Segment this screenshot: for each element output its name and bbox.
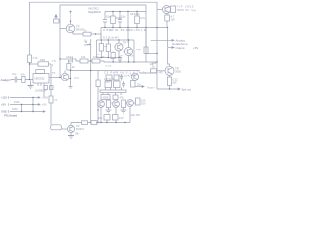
junction node (116,122.5): [115, 122, 116, 123]
title label: [88, 7, 101, 14]
wire long mid rail: [100, 61, 157, 62]
svg-text:+12V: +12V: [42, 96, 48, 100]
resistor R_reg: [165, 15, 170, 21]
resistor box R_a: [112, 12, 114, 28]
junction node (157,62): [156, 61, 157, 62]
junction node (108.3,40): [108, 39, 109, 40]
wire Q4 to right edge: [140, 72, 157, 74]
svg-text:+12V: +12V: [1, 96, 7, 100]
wire arrow to block: [96, 122, 97, 124]
wire Q3 collector: [118, 40, 120, 43]
label Q6: [75, 124, 85, 136]
svg-text:+5V: +5V: [42, 103, 47, 107]
junction node (101,122.5): [100, 122, 101, 123]
junction node (33,104.5): [32, 104, 33, 105]
svg-text:1W: 1W: [171, 18, 176, 22]
dashed adj line: [70, 13, 72, 22]
junction node (113.1,62): [112, 61, 113, 62]
wire cap drop 2: [119, 12, 121, 28]
wire Q5 down: [166, 14, 168, 16]
wire base: [60, 28, 67, 30]
svg-text:100n: 100n: [136, 49, 142, 51]
box small row 2: [113, 115, 119, 121]
wire Q3 base: [114, 46, 117, 48]
junction node (70.5,70.5): [70, 70, 71, 71]
box small row 1: [104, 115, 110, 121]
svg-text:R5: R5: [85, 43, 89, 47]
wire Q2 collector right: [69, 78, 71, 80]
wire Q2 top: [64, 71, 66, 74]
component row top: box1: [105, 81, 112, 88]
capacitor C11: [118, 56, 122, 62]
wire row3: [10, 111, 45, 113]
label Q5: [171, 5, 196, 22]
arrow collector: [98, 122, 100, 124]
transistor Q7: [165, 66, 174, 75]
wire collector up: [70, 21, 72, 24]
resistor box C: [111, 53, 115, 59]
junction node (120,62): [119, 61, 120, 62]
resistor right lowblock: [136, 98, 141, 105]
box bottom connector J2: [51, 125, 62, 130]
capacitor block C20: [44, 86, 48, 90]
wire rows joint vertical: [32, 98, 34, 112]
junction node (68.8,61): [68, 60, 69, 61]
svg-text:4R7: 4R7: [159, 72, 164, 75]
wire collector up: [71, 123, 82, 126]
wires down to rail: [101, 106, 130, 122]
junction node (137,11.5): [136, 11, 137, 12]
resistor base Rb: [151, 69, 157, 73]
wire opamp down to power rows: [43, 86, 45, 98]
wire fb right: [49, 63, 52, 65]
svg-text:TR: TR: [123, 41, 127, 45]
transistor Q4: [131, 73, 138, 80]
wire Q4b base: [124, 51, 125, 53]
wire R5-R6: [88, 60, 92, 62]
svg-text:10u: 10u: [12, 72, 17, 76]
wire opamp out down: [50, 64, 52, 125]
junction node (128.5,62): [128, 61, 129, 62]
wire volume pot vertical: [90, 39, 92, 71]
junction node (95.5,34): [95, 33, 96, 34]
junction node (119,40): [118, 39, 119, 40]
wire: [88, 122, 92, 124]
svg-text:TP: TP: [52, 71, 56, 75]
ground small: [69, 87, 73, 89]
junction node (169.5,89): [169, 88, 170, 89]
svg-text:10k: 10k: [75, 132, 80, 136]
svg-text:LM386 N: LM386 N: [35, 89, 46, 93]
transistor Q6: [67, 125, 74, 132]
junction node (90.7,61): [90, 60, 91, 61]
arrow row2: [38, 104, 40, 106]
wire stubs lowblock: [108, 100, 123, 111]
transistor Q3: [115, 43, 123, 51]
junction node (105,27.5): [104, 27, 105, 28]
wire resistor to rail: [166, 21, 168, 28]
wire top rail: [105, 11, 146, 13]
svg-text:47k: 47k: [21, 73, 26, 77]
wire Q3 emitter: [118, 51, 120, 58]
bus pins down: [103, 93, 121, 96]
junction node (157,27.5): [156, 27, 157, 28]
pot wiper arrow: [87, 44, 90, 45]
resistor Rb1: [82, 121, 88, 125]
svg-text:L IN R IN: L IN R IN: [104, 78, 114, 81]
svg-text:10u 16V: 10u 16V: [131, 113, 141, 117]
resistor box C_c: [136, 12, 138, 28]
junction node (33,111.5): [32, 111, 33, 112]
wire rail to lowblock: [97, 71, 99, 91]
transistor Q2 lower-left: [61, 73, 69, 81]
labels amp block: [84, 36, 154, 67]
wire feedback down: [90, 71, 92, 123]
labels output: [152, 61, 181, 90]
resistor R1: [22, 77, 25, 83]
labels lower block: [98, 80, 153, 121]
op-amp U1 box: [33, 74, 49, 84]
resistor ladder r2: [107, 40, 109, 58]
tick row3: [7, 110, 9, 112]
svg-text:BC547: BC547: [76, 127, 84, 131]
arrow output: [168, 47, 175, 49]
svg-text:100n: 100n: [14, 100, 20, 104]
wire drop x70.5: [70, 71, 72, 87]
wire cap drop 1: [104, 12, 106, 28]
svg-text:4.7k: 4.7k: [33, 56, 39, 60]
wire out rail: [157, 88, 176, 90]
junction node (128,11.5): [127, 11, 128, 12]
svg-text:Spk out: Spk out: [182, 88, 192, 92]
wire bottom rail: [96, 122, 130, 124]
svg-text:C PWR IN -5V GND +5V L R: C PWR IN -5V GND +5V L R: [103, 28, 146, 32]
junction node (125,122.5): [124, 122, 125, 123]
wire R7 stub: [68, 61, 70, 64]
transistor Q9: [113, 101, 120, 108]
resistor R7 vertical: [67, 64, 71, 71]
arrow out: [178, 88, 180, 90]
ground lowblock 2: [120, 110, 126, 113]
junction node (134,62): [133, 61, 134, 62]
wire block bottom rail: [97, 57, 123, 59]
junction node (137,27.5): [136, 27, 137, 28]
labels headphone: [172, 39, 198, 50]
resistor Rb2: [91, 121, 97, 125]
junction node (157,53.5): [156, 53, 157, 54]
label Q1: [76, 25, 87, 33]
svg-text:10u: 10u: [106, 15, 111, 19]
svg-text:A out: A out: [147, 86, 153, 90]
ground lowblock 1: [105, 110, 111, 113]
wire emitter down: [70, 133, 72, 136]
svg-text:4.7u: 4.7u: [140, 16, 146, 20]
svg-text:3055: 3055: [175, 70, 181, 74]
svg-text:100k: 100k: [40, 58, 46, 62]
junction node (90.7,122.5): [90, 122, 91, 123]
wire block right edge: [133, 40, 135, 62]
cap plus: [122, 81, 125, 88]
wire to amp block: [91, 33, 101, 35]
labels input stage: [12, 56, 46, 90]
box U2b: [113, 95, 118, 100]
svg-text:+5V: +5V: [193, 46, 198, 50]
box low2: [114, 75, 119, 80]
wire out arrow: [135, 86, 144, 88]
svg-text:10u: 10u: [137, 83, 142, 87]
junction node (70.5,21): [70, 20, 71, 21]
wire x128 down to amp block: [127, 28, 129, 44]
svg-text:+5V: +5V: [1, 103, 6, 107]
wire box to base: [62, 128, 68, 130]
wire block top rail: [97, 39, 135, 41]
box low1: [106, 75, 112, 81]
resistor R2 vertical on left edge: [28, 55, 32, 63]
junction node (70.5,78.5): [70, 78, 71, 79]
wire left edge lower: [29, 63, 31, 80]
svg-text:7.5: 7.5: [52, 59, 56, 63]
wire Q4b collector up: [128, 40, 130, 48]
resistor R out 0.22: [167, 77, 171, 86]
transistor Q10: [127, 100, 134, 107]
svg-text:10u: 10u: [98, 116, 103, 120]
wire to out rail: [169, 86, 171, 90]
wire Q4b emitter down: [128, 56, 130, 63]
wire row1: [10, 97, 40, 99]
wire block left edge: [97, 90, 99, 123]
resistor vert lowblock 2: [121, 100, 125, 108]
junction node (107,122.5): [106, 122, 107, 123]
wire row2: [10, 104, 40, 106]
junction node (120,11.5): [119, 11, 120, 12]
wire base feed: [157, 9, 163, 11]
transistor Q4b: [125, 48, 133, 56]
svg-text:7805 5V reg: 7805 5V reg: [177, 8, 196, 12]
svg-text:47k: 47k: [120, 96, 125, 100]
junction node (108.3,57.5): [108, 57, 109, 58]
wire right edge down: [156, 62, 158, 89]
wire base: [157, 70, 165, 72]
junction node (167.5,27.5): [167, 27, 168, 28]
resistor R12: [96, 80, 100, 87]
wire inner left edge down: [59, 28, 61, 77]
wire Q7 emitter down: [169, 75, 171, 77]
wire J1 to base: [59, 20, 60, 22]
svg-text:100n: 100n: [12, 107, 18, 111]
junction node (29.5,64): [29, 63, 30, 64]
junction node (128.5,40): [128, 39, 129, 40]
svg-text:1k 0.1u 4u7 BC: 1k 0.1u 4u7 BC: [118, 74, 136, 78]
inner enclosure box: [60, 5, 146, 28]
wire Q7 collector up: [168, 48, 170, 66]
junction node (21.5,104.5): [21, 104, 22, 105]
wire inner right edge down: [145, 28, 147, 63]
bus bar: [100, 90, 126, 93]
svg-text:NE5532: NE5532: [35, 77, 46, 81]
capacitor block C21: [50, 86, 54, 90]
capacitor C12 on right drop: [145, 28, 147, 48]
wire mid signal: [60, 58, 70, 60]
junction node (119,57.5): [118, 57, 119, 58]
wire Q2 base from opamp: [49, 77, 61, 79]
junction node (33,97.5): [32, 97, 33, 98]
capacitor C_b: [118, 20, 122, 23]
svg-text:BC: BC: [121, 55, 124, 57]
svg-text:C10: C10: [66, 55, 71, 59]
wire rows joint small: [21, 105, 23, 112]
resistor ladder r1: [100, 40, 102, 58]
svg-text:10u: 10u: [121, 15, 126, 19]
svg-text:16V: 16V: [119, 116, 124, 120]
wire long feedback rail: [71, 70, 140, 72]
svg-text:1k 10k: 1k 10k: [105, 66, 112, 68]
wire C12 to right edge: [146, 53, 157, 55]
svg-text:16V: 16V: [141, 102, 146, 106]
resistor vert: [131, 81, 136, 88]
ground under pin1: [30, 81, 32, 86]
labels mid: [52, 40, 105, 80]
box U2a: [101, 95, 110, 100]
outer enclosure box: [30, 2, 158, 62]
box2: [114, 81, 121, 88]
junction node (101.3,57.5): [101, 57, 102, 58]
capacitor C10: [71, 57, 73, 63]
capacitor C1: [15, 77, 17, 83]
svg-text:R 2.2k 1k 4k7: R 2.2k 1k 4k7: [103, 36, 119, 40]
junction node (101.3,40): [101, 39, 102, 40]
resistor R4: [83, 32, 91, 36]
svg-text:C2 100n: C2 100n: [130, 12, 140, 16]
transistor Q5 circle: [163, 6, 171, 14]
wire box C stub: [112, 52, 114, 63]
arrow row3: [43, 111, 45, 113]
arrow row1: [38, 97, 40, 99]
arrow analog: [151, 39, 174, 41]
wire bottom rail y27.5: [101, 27, 168, 29]
label texts top network: [106, 12, 146, 20]
svg-text:Output: Output: [176, 46, 185, 50]
junction node (113,11.5): [112, 11, 113, 12]
capacitor C_a: [103, 20, 107, 23]
capacitor C4 feedback: [36, 70, 45, 74]
svg-text:Analog in: Analog in: [1, 78, 11, 82]
junction node (146,27.5): [145, 27, 146, 28]
tick row1: [7, 96, 9, 98]
capacitor low: [120, 74, 123, 81]
junction node (90.7,70.5): [90, 70, 91, 71]
junction node (120,27.5): [119, 27, 120, 28]
svg-text:4.7u: 4.7u: [74, 76, 80, 80]
resistor vert lowblock 1: [106, 100, 110, 108]
junction node (128,27.5): [127, 27, 128, 28]
wire drop x128: [127, 12, 129, 28]
ground Q6: [68, 135, 74, 137]
wire down from rail: [167, 28, 169, 48]
tick row2: [7, 103, 9, 105]
wire Q2 collector: [68, 69, 70, 72]
junction node (113,27.5): [112, 27, 113, 28]
resistor R6: [92, 59, 100, 63]
wire block left edge: [96, 40, 98, 58]
svg-text:4558: 4558: [103, 95, 109, 99]
connector box J1: [54, 19, 60, 23]
antenna symbol: [55, 17, 57, 19]
plus mark: [69, 10, 72, 13]
junction node (98,110): [97, 109, 98, 110]
wire to right resistor: [134, 102, 136, 104]
junction node (60,59): [59, 58, 60, 59]
junction node (60,77.5): [59, 77, 60, 78]
U2 pins top: [106, 88, 122, 91]
junction node (29.5,79.5): [29, 79, 30, 80]
svg-text:PSU board: PSU board: [4, 114, 17, 118]
wire corner down to amp block: [100, 28, 102, 40]
transistor Q8: [98, 101, 105, 108]
svg-text:5W: 5W: [173, 81, 177, 85]
wire to opamp p2: [30, 63, 39, 65]
svg-text:10k: 10k: [152, 61, 157, 65]
wire emitter down-right: [73, 32, 83, 34]
box right of Q5: [171, 6, 176, 13]
transistor Q1: [66, 24, 75, 33]
resistor R10: [49, 96, 53, 103]
junction node (21.5,111.5): [21, 111, 22, 112]
op-amp pins bottom: [38, 83, 44, 86]
svg-text:10k: 10k: [81, 55, 86, 59]
svg-text:Design B DVD: Design B DVD: [88, 10, 101, 14]
wire input: [11, 79, 34, 81]
labels power rows: [1, 96, 48, 114]
wire signal to R5: [73, 59, 80, 61]
resistor R3 feedback: [38, 62, 49, 66]
resistor R5: [80, 59, 88, 63]
